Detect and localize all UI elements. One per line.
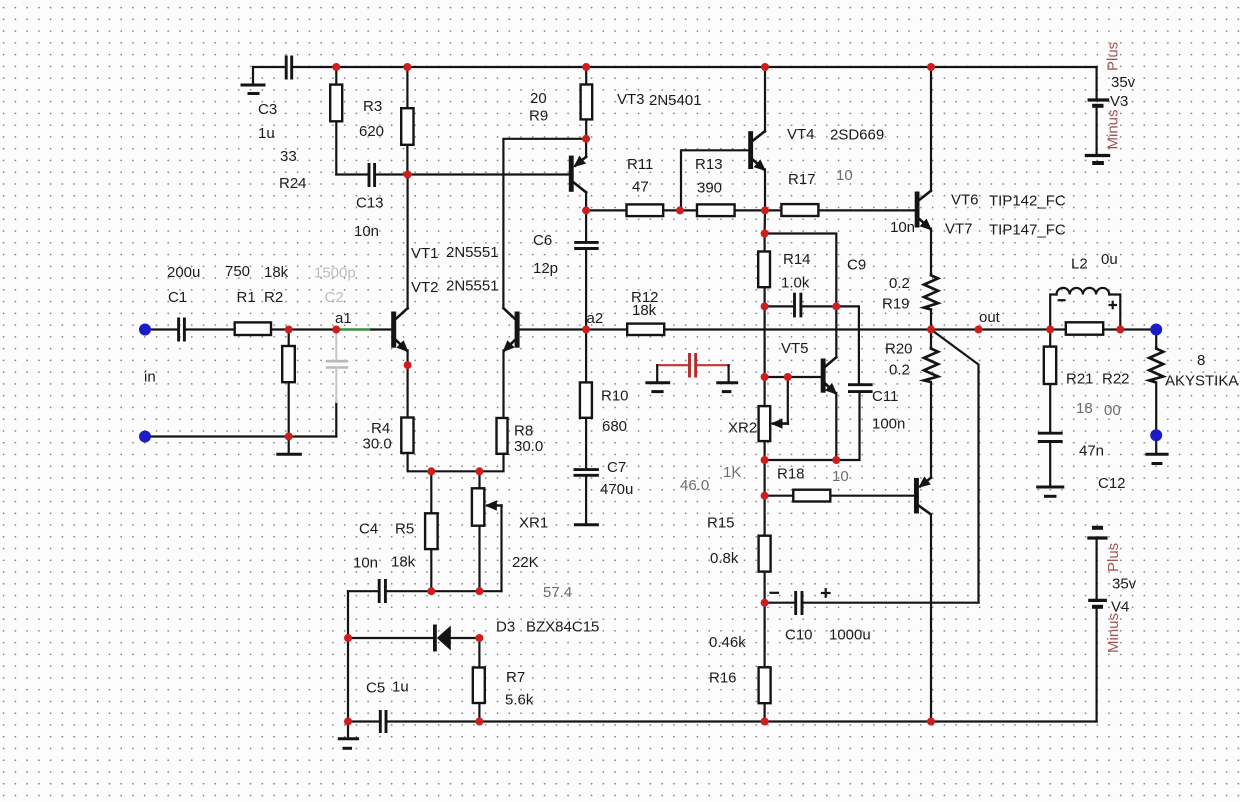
resistor R19 zigzag: [924, 273, 938, 330]
label C10: [785, 627, 871, 644]
wire VT4 emitter node down x=764.6: [763, 210, 766, 233]
svg-text:R14: R14: [783, 251, 811, 268]
label R20: [885, 341, 913, 379]
wire a2 line y=329.5 R12 to out: [586, 328, 1156, 330]
label VT4: [787, 126, 884, 144]
svg-text:18k: 18k: [391, 554, 416, 571]
ground at C3: [241, 85, 266, 94]
svg-text:1K: 1K: [723, 464, 741, 481]
ground at C5: [338, 722, 359, 749]
wire XR2 stem: [763, 377, 765, 496]
resistor R14: [758, 252, 770, 288]
svg-text:8: 8: [1197, 352, 1205, 369]
wire node y=233.5 across to VT5 collector: [765, 234, 837, 358]
svg-text:a2: a2: [587, 310, 604, 327]
wire bottom rail y=721.5: [348, 720, 1097, 722]
svg-text:620: 620: [359, 123, 384, 140]
svg-text:C6: C6: [533, 232, 552, 249]
wire green net a1 to VT1 base: [338, 328, 391, 331]
svg-text:00: 00: [1104, 402, 1121, 419]
label VT3: [617, 91, 702, 109]
svg-text:2N5551: 2N5551: [446, 244, 499, 261]
svg-text:C13: C13: [356, 195, 384, 212]
red capacitor with grounds (selected): [657, 353, 728, 378]
svg-text:VT1: VT1: [411, 245, 439, 262]
label R21 R22: [1066, 371, 1130, 420]
L2 polarity marks: [1059, 300, 1116, 308]
ground at C12: [1036, 487, 1064, 496]
svg-text:10n: 10n: [353, 555, 378, 572]
wire C3 ground stub: [252, 67, 254, 84]
svg-text:VT7: VT7: [945, 221, 973, 238]
svg-text:R10: R10: [601, 388, 629, 405]
svg-text:R18: R18: [777, 466, 805, 483]
diode D3: [433, 625, 451, 652]
label V3: [1105, 42, 1136, 150]
capacitor C5: [380, 710, 386, 733]
svg-text:18k: 18k: [632, 302, 657, 319]
wire C11 top riser: [836, 306, 859, 384]
wire VT4 base riser x=681: [681, 150, 748, 210]
svg-text:XR2: XR2: [728, 420, 757, 437]
transistor VT5: [821, 357, 837, 460]
svg-text:22K: 22K: [512, 554, 539, 571]
svg-text:AKYSTIKA: AKYSTIKA: [1165, 373, 1238, 390]
ground right of red capacitor: [716, 365, 738, 391]
label R16: [709, 634, 746, 687]
wire VT5 base line y=377: [765, 376, 821, 378]
svg-text:R5: R5: [395, 521, 414, 538]
capacitor C10: [796, 591, 802, 615]
wire R11 line y=210.4: [586, 209, 915, 211]
svg-text:C4: C4: [359, 521, 378, 538]
svg-text:2N5551: 2N5551: [446, 278, 499, 295]
capacitor C7: [574, 470, 599, 476]
svg-text:VT2: VT2: [411, 279, 439, 296]
label C11: [872, 388, 905, 433]
svg-text:470u: 470u: [600, 481, 633, 498]
label VT1: [411, 244, 499, 262]
potentiometer XR2: [759, 377, 788, 441]
svg-text:TIP142_FC: TIP142_FC: [989, 193, 1066, 210]
capacitor C3: [286, 56, 292, 80]
svg-text:VT6: VT6: [951, 192, 979, 209]
label C3: [258, 101, 277, 142]
svg-text:R21: R21: [1066, 371, 1094, 388]
transistor VT3: [569, 139, 586, 210]
wire R5 branch: [430, 471, 432, 591]
label R17: [788, 167, 853, 188]
svg-text:C2: C2: [325, 289, 344, 306]
resistor R21: [1044, 347, 1056, 384]
svg-text:R15: R15: [707, 515, 735, 532]
svg-text:C7: C7: [607, 459, 626, 476]
wire left drop x=348: [347, 591, 349, 721]
svg-text:390: 390: [697, 180, 722, 197]
svg-text:0.8k: 0.8k: [710, 550, 739, 567]
wire C4 line y=591.2: [348, 590, 502, 592]
svg-text:30.0: 30.0: [514, 438, 543, 455]
svg-text:VT5: VT5: [781, 340, 809, 357]
svg-text:0u: 0u: [1101, 251, 1118, 268]
svg-text:10: 10: [832, 468, 849, 485]
terminal in+: [139, 324, 151, 336]
wire C7 tail with end bar: [574, 475, 599, 525]
svg-text:TIP147_FC: TIP147_FC: [989, 222, 1066, 239]
label R19: [882, 275, 910, 313]
svg-text:R9: R9: [529, 108, 548, 125]
svg-text:18k: 18k: [264, 264, 289, 281]
svg-text:1.0k: 1.0k: [781, 275, 810, 292]
label VT7: [945, 221, 1066, 239]
svg-text:57.4: 57.4: [543, 584, 572, 601]
label C6: [533, 232, 558, 277]
resistor R10: [580, 382, 592, 417]
svg-text:Plus: Plus: [1105, 42, 1122, 71]
svg-text:47n: 47n: [1079, 443, 1104, 460]
label L2: [1071, 251, 1118, 273]
resistor R15: [759, 536, 771, 572]
wire out diagonal to C10: [931, 330, 979, 603]
svg-text:18: 18: [1076, 400, 1093, 417]
svg-text:C10: C10: [785, 627, 813, 644]
svg-text:R16: R16: [709, 670, 737, 687]
wire R9 branch x=586: [585, 67, 587, 139]
label C12: [1079, 443, 1126, 493]
svg-text:D3: D3: [496, 619, 515, 636]
wire C11 bottom riser: [836, 392, 859, 460]
wire input line y=329.5: [145, 328, 336, 330]
label R2: [264, 264, 289, 306]
C10 polarity marks: [771, 589, 830, 597]
svg-text:R1: R1: [237, 289, 256, 306]
inductor L2 bypass loop: [1050, 288, 1120, 330]
svg-text:R4: R4: [371, 420, 390, 437]
svg-text:35v: 35v: [1111, 74, 1136, 91]
svg-text:1500p: 1500p: [314, 265, 356, 282]
svg-text:2N5401: 2N5401: [649, 92, 702, 109]
label speaker: [1165, 352, 1238, 390]
wire C10 line y=602.7: [765, 602, 979, 604]
capacitor C13: [369, 163, 375, 187]
svg-text:0.2: 0.2: [889, 275, 910, 292]
svg-text:C9: C9: [847, 257, 866, 274]
svg-text:C11: C11: [872, 388, 898, 405]
svg-text:R22: R22: [1102, 371, 1130, 388]
svg-text:35v: 35v: [1112, 576, 1137, 593]
label R18: [777, 466, 849, 486]
wire R21 C12 chain x=1050.2: [1049, 330, 1051, 487]
svg-text:R19: R19: [882, 296, 910, 313]
svg-text:V3: V3: [1110, 93, 1128, 110]
wire C9 line y=306.4: [765, 305, 837, 307]
label V4: [1105, 543, 1137, 653]
svg-text:C12: C12: [1098, 475, 1126, 492]
svg-text:out: out: [979, 309, 1001, 326]
capacitor C9: [795, 293, 801, 318]
ground left of red capacitor: [645, 365, 670, 391]
svg-text:680: 680: [602, 418, 627, 435]
svg-text:46.0: 46.0: [680, 477, 709, 494]
capacitor C4: [379, 579, 385, 603]
label C4: [353, 521, 378, 572]
capacitor C6: [574, 242, 599, 248]
svg-text:VT3: VT3: [617, 91, 645, 108]
resistor R2 branch: [288, 330, 290, 437]
ghost capacitor C2: [326, 331, 348, 402]
svg-text:V4: V4: [1111, 599, 1129, 616]
capacitor C11: [848, 385, 873, 392]
resistor R20 zigzag: [924, 330, 938, 478]
svg-text:C1: C1: [168, 289, 187, 306]
svg-text:10: 10: [836, 167, 853, 184]
svg-text:Minus: Minus: [1105, 613, 1122, 653]
svg-text:0.46k: 0.46k: [709, 634, 746, 651]
terminal out+: [1150, 324, 1162, 336]
svg-text:R3: R3: [363, 98, 382, 115]
resistor R22: [1066, 322, 1103, 334]
wire diff-pair tail y=471.3: [408, 453, 504, 471]
terminal in-: [139, 431, 151, 443]
svg-text:33: 33: [280, 148, 297, 165]
svg-text:30.0: 30.0: [363, 436, 392, 453]
svg-text:10n: 10n: [354, 223, 379, 240]
resistor R4: [401, 418, 413, 454]
transistor VT1: [391, 175, 407, 418]
svg-text:C3: C3: [258, 101, 277, 118]
svg-text:Minus: Minus: [1105, 109, 1122, 149]
label XR1: [512, 515, 572, 602]
resistor R11: [627, 204, 664, 216]
label R8: [514, 423, 543, 456]
svg-text:1u: 1u: [392, 679, 409, 696]
label C13: [354, 195, 384, 241]
wire top supply rail y=67 from C3 to V3 corner: [253, 66, 1097, 68]
wire C13 line y=174.5 to VT3 base: [336, 173, 569, 175]
svg-text:47: 47: [632, 179, 649, 196]
wire R18 line y=495.7: [765, 495, 914, 497]
svg-text:2SD669: 2SD669: [830, 127, 884, 144]
resistor R24: [330, 85, 342, 122]
wire C2 bottom riser: [335, 402, 337, 437]
wire emitter node y=460: [765, 459, 837, 461]
battery V3: [1085, 67, 1110, 163]
svg-text:0.2: 0.2: [889, 362, 910, 379]
svg-text:200u: 200u: [167, 264, 200, 281]
label C2 ghost: [314, 265, 356, 307]
svg-text:L2: L2: [1071, 256, 1088, 273]
wire R3 branch x=407.4: [406, 67, 408, 175]
svg-text:5.6k: 5.6k: [505, 692, 534, 709]
label R1: [225, 263, 256, 306]
label R7: [505, 669, 534, 709]
svg-text:VT4: VT4: [787, 126, 815, 143]
transistor VT7: [914, 478, 931, 722]
svg-text:R7: R7: [506, 669, 525, 686]
label C7: [600, 459, 633, 498]
wire R7 branch: [478, 638, 480, 722]
svg-text:a1: a1: [335, 310, 352, 327]
label C5: [366, 679, 409, 697]
transistor VT6: [915, 67, 931, 273]
svg-text:1u: 1u: [258, 125, 275, 142]
wire C6 branch x=586: [585, 210, 587, 329]
label VT6: [951, 192, 1066, 210]
svg-text:1000u: 1000u: [829, 627, 871, 644]
svg-text:Plus: Plus: [1105, 543, 1122, 572]
wire R15 R16 chain x=764.6: [763, 496, 765, 722]
svg-text:XR1: XR1: [519, 515, 548, 532]
svg-text:12p: 12p: [533, 260, 558, 277]
svg-text:R2: R2: [264, 289, 283, 306]
wire feedback corner x=503.4 from y=138.6 down to VT2 collector: [503, 139, 586, 308]
wire R10 branch: [585, 330, 587, 470]
resistor R17: [781, 204, 818, 216]
resistor R18: [793, 490, 830, 502]
label R3: [359, 98, 384, 140]
resistor R8: [497, 418, 508, 454]
label R12: [631, 289, 659, 319]
resistor R16: [759, 667, 771, 703]
label R5: [391, 521, 416, 571]
wire input bottom line y=436.5: [145, 435, 336, 437]
label R13: [695, 156, 723, 197]
wire R24 branch x=336: [335, 67, 337, 175]
label R4: [363, 420, 392, 453]
svg-text:100n: 100n: [872, 416, 905, 433]
wire XR1 branch: [478, 471, 480, 591]
svg-text:R13: R13: [695, 156, 723, 173]
resistor R2: [282, 346, 295, 382]
svg-text:10n: 10n: [890, 219, 915, 236]
speaker resistor AKYSTIKA zigzag: [1149, 330, 1163, 436]
transistor VT4: [748, 67, 765, 210]
resistor R5: [425, 513, 438, 549]
resistor R13: [697, 204, 735, 216]
ground at speaker: [1145, 435, 1168, 463]
svg-text:20: 20: [530, 90, 547, 107]
svg-text:BZX84C15: BZX84C15: [526, 619, 599, 636]
svg-text:R11: R11: [627, 156, 653, 173]
label XR2: [680, 420, 757, 495]
label C1: [167, 264, 200, 306]
svg-text:C5: C5: [366, 680, 385, 697]
label R15: [707, 515, 739, 568]
svg-text:R17: R17: [788, 171, 816, 188]
svg-text:R20: R20: [885, 341, 913, 358]
ground at input: [276, 437, 302, 455]
wire D3 line y=638: [348, 637, 479, 639]
resistor R7: [473, 668, 485, 704]
label R24: [279, 148, 307, 192]
label D3: [496, 619, 599, 636]
resistor R3: [401, 108, 413, 145]
capacitor C12: [1038, 433, 1063, 441]
label R14: [781, 251, 811, 292]
svg-text:R24: R24: [279, 175, 307, 192]
resistor R1: [235, 322, 271, 335]
label R10: [601, 388, 629, 436]
svg-text:R8: R8: [514, 423, 533, 440]
label VT2: [411, 278, 499, 297]
capacitor C1: [179, 318, 185, 342]
label R9: [529, 90, 548, 125]
terminal out-: [1150, 429, 1162, 441]
label R11: [627, 156, 653, 196]
resistor R12: [627, 324, 664, 335]
svg-text:in: in: [144, 369, 156, 386]
svg-text:750: 750: [225, 263, 250, 280]
transistor VT2: [504, 308, 587, 418]
resistor R9: [581, 85, 593, 120]
battery V4: [1087, 528, 1107, 722]
wire R14 branch: [763, 234, 765, 378]
potentiometer XR1: [472, 488, 502, 591]
